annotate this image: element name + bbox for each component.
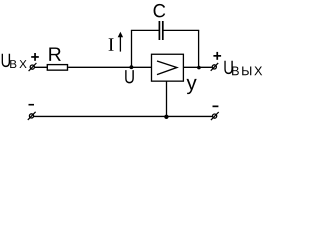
wire resistor to op-amp input xyxy=(68,66,151,68)
op-amp chevron symbol xyxy=(157,61,177,75)
amplifier label У xyxy=(187,79,197,94)
bottom-left terminal xyxy=(28,112,36,120)
capacitor C plates xyxy=(159,21,162,40)
feedback right vertical wire xyxy=(198,30,200,67)
op-amp box xyxy=(152,54,184,81)
wire op-amp output to output terminal xyxy=(183,66,211,68)
minus sign at bottom-right terminal xyxy=(213,106,219,108)
input terminal xyxy=(29,63,37,71)
node U label xyxy=(125,70,134,83)
current label I xyxy=(109,38,114,50)
current arrow xyxy=(118,32,123,52)
label C xyxy=(154,4,166,18)
feedback left vertical wire xyxy=(131,30,133,67)
node U junction dot xyxy=(130,65,134,69)
feedback top-right horizontal wire xyxy=(163,29,199,31)
label Uvx (input voltage) xyxy=(2,54,27,68)
label Uvyx (output voltage) xyxy=(224,61,262,75)
minus sign at bottom-left terminal xyxy=(29,104,35,106)
feedback top-left horizontal wire xyxy=(131,29,159,31)
output junction dot xyxy=(197,66,201,70)
resistor R xyxy=(47,65,67,71)
plus sign at output terminal xyxy=(213,52,221,60)
op-amp ground leg wire xyxy=(166,81,168,116)
plus sign at input terminal xyxy=(31,53,39,61)
label R xyxy=(49,48,61,61)
output terminal xyxy=(211,63,219,71)
bottom common wire xyxy=(34,115,212,117)
wire terminal to resistor xyxy=(35,66,48,68)
bottom-right terminal xyxy=(211,112,219,120)
ground junction dot xyxy=(164,115,168,119)
